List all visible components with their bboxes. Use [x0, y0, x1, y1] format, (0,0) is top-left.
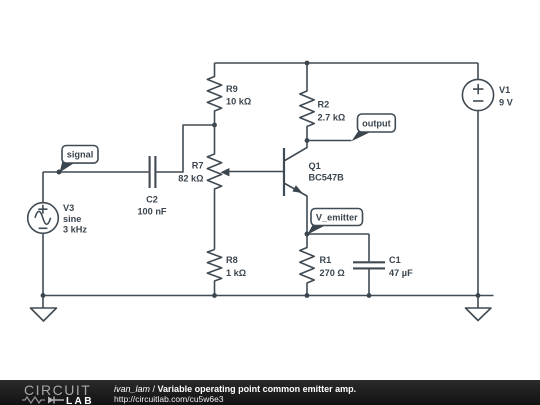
- svg-text:R2: R2: [318, 99, 330, 109]
- capacitor C1: [353, 234, 413, 296]
- node: R1 to ground rail: [305, 293, 310, 298]
- svg-text:R1: R1: [320, 255, 332, 265]
- svg-text:47 µF: 47 µF: [389, 268, 413, 278]
- svg-text:9 V: 9 V: [499, 98, 514, 108]
- potentiometer R7: [178, 125, 284, 250]
- node signal attach: [57, 170, 62, 175]
- resistor R1: [300, 234, 345, 296]
- svg-text:BC547B: BC547B: [309, 172, 345, 182]
- svg-text:R7: R7: [192, 160, 204, 170]
- wire C2 to node A: [156, 125, 214, 172]
- flag signal: [60, 146, 99, 173]
- flag output: [352, 114, 396, 141]
- svg-text:3 kHz: 3 kHz: [63, 225, 87, 235]
- svg-text:R8: R8: [226, 255, 238, 265]
- footer bar: [0, 380, 540, 405]
- svg-text:100 nF: 100 nF: [137, 206, 166, 216]
- node V_emitter: [305, 232, 310, 237]
- node: V3 to ground rail: [41, 293, 46, 298]
- wire top rail: [215, 62, 479, 64]
- node: top rail / R2: [305, 61, 310, 66]
- footer title: [114, 384, 356, 394]
- svg-text:V3: V3: [63, 203, 74, 213]
- transistor Q1: [284, 141, 344, 234]
- svg-text:C1: C1: [389, 255, 401, 265]
- voltage source V1: [462, 63, 513, 296]
- svg-text:signal: signal: [67, 150, 94, 160]
- resistor R2: [300, 63, 346, 141]
- wire output: [307, 140, 352, 142]
- resistor R8: [207, 250, 246, 296]
- svg-text:sine: sine: [63, 214, 81, 224]
- flag V_emitter: [308, 209, 363, 235]
- wire signal line V3 to C2: [43, 171, 149, 173]
- svg-text:2.7 kΩ: 2.7 kΩ: [318, 112, 346, 122]
- svg-text:82 kΩ: 82 kΩ: [178, 173, 203, 183]
- svg-text:10 kΩ: 10 kΩ: [226, 97, 251, 107]
- svg-text:1 kΩ: 1 kΩ: [226, 268, 246, 278]
- resistor R9: [207, 63, 251, 125]
- svg-text:C2: C2: [146, 195, 158, 205]
- footer url: [114, 395, 224, 405]
- svg-text:output: output: [362, 119, 391, 129]
- CircuitLab logo: [24, 383, 91, 397]
- node A: R9/R7/C2 junction: [212, 123, 217, 128]
- capacitor C2: [137, 156, 166, 216]
- svg-text:270 Ω: 270 Ω: [320, 268, 345, 278]
- node: collector / R2 / output: [305, 138, 310, 143]
- svg-text:Q1: Q1: [309, 161, 321, 171]
- wire emitter node to C1: [307, 233, 369, 235]
- ground (right): [466, 296, 492, 321]
- ground (left): [31, 296, 57, 322]
- voltage source V3: [28, 172, 88, 296]
- node: V1 to ground rail: [476, 293, 481, 298]
- wire bottom rail: [43, 295, 494, 297]
- svg-text:R9: R9: [226, 84, 238, 94]
- node: C1 to ground rail: [367, 293, 372, 298]
- node: R8 to ground rail: [212, 293, 217, 298]
- svg-text:V1: V1: [499, 85, 510, 95]
- svg-text:V_emitter: V_emitter: [316, 212, 358, 222]
